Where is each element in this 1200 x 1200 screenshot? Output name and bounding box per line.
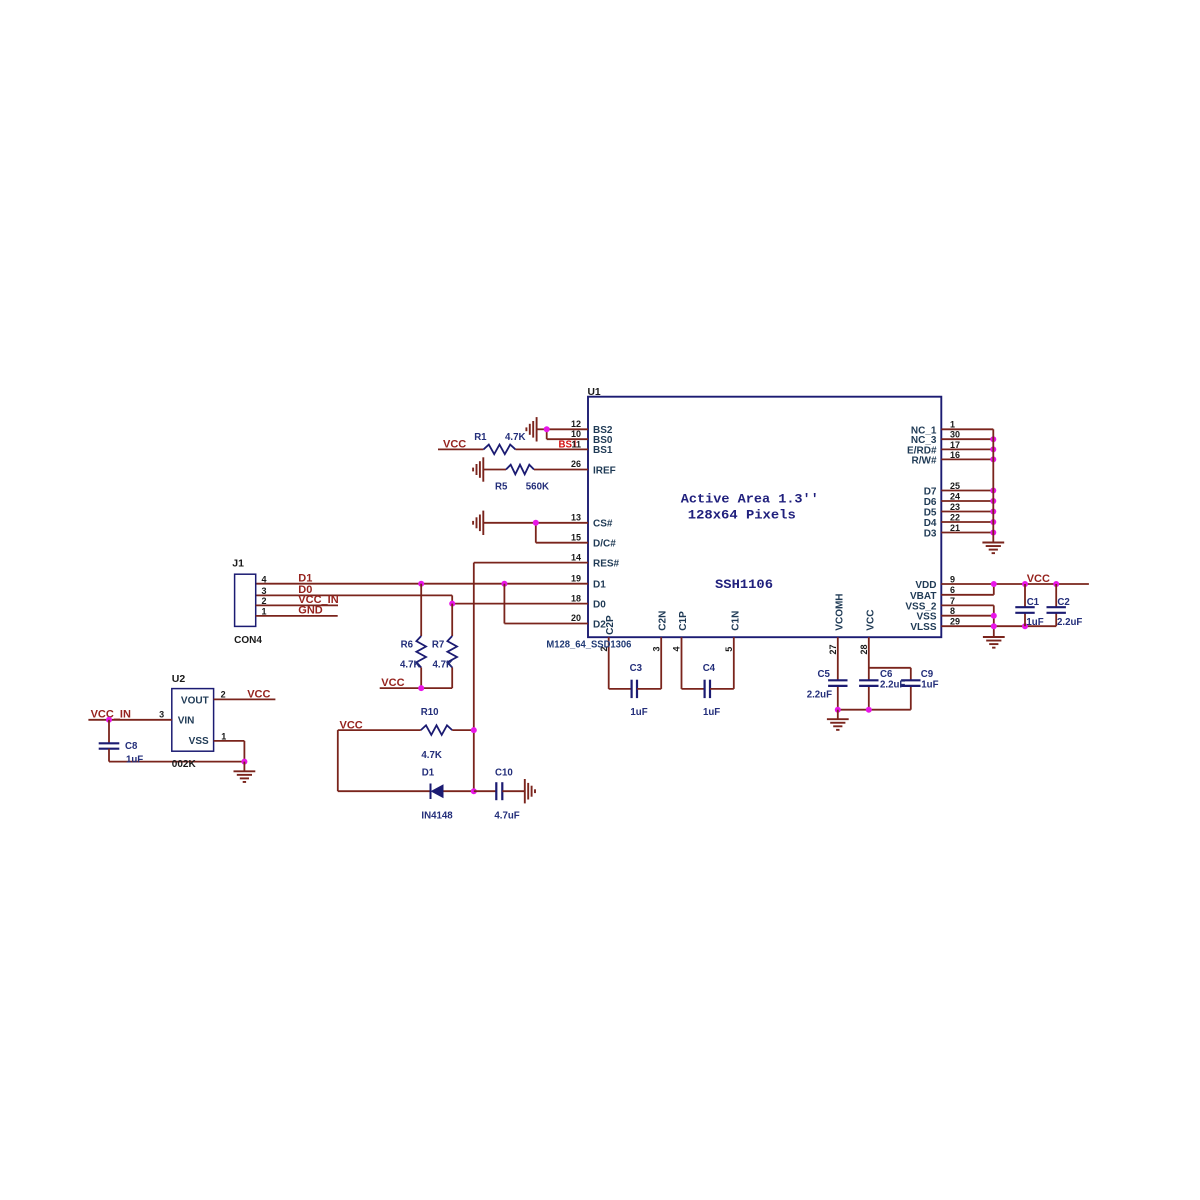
svg-text:1uF: 1uF (630, 707, 647, 718)
svg-text:1: 1 (221, 731, 226, 741)
svg-text:4: 4 (262, 574, 267, 584)
svg-text:R1: R1 (474, 432, 487, 443)
svg-text:29: 29 (950, 617, 960, 627)
svg-text:U2: U2 (172, 673, 186, 685)
svg-text:1uF: 1uF (921, 680, 938, 691)
svg-text:CS#: CS# (593, 519, 613, 530)
svg-text:1uF: 1uF (1026, 617, 1043, 628)
svg-text:4.7uF: 4.7uF (494, 811, 519, 822)
svg-text:VCC: VCC (443, 439, 466, 451)
svg-text:VBAT: VBAT (910, 591, 936, 602)
svg-text:30: 30 (950, 430, 960, 440)
svg-text:VCC: VCC (381, 677, 404, 689)
svg-text:D4: D4 (924, 518, 937, 529)
svg-text:8: 8 (950, 606, 955, 616)
svg-text:13: 13 (571, 513, 581, 523)
svg-text:15: 15 (571, 532, 581, 542)
svg-text:6: 6 (950, 585, 955, 595)
svg-text:C3: C3 (630, 663, 643, 674)
svg-text:VIN: VIN (178, 716, 195, 727)
svg-text:GND: GND (298, 605, 323, 617)
svg-text:4.7K: 4.7K (505, 432, 525, 443)
svg-text:3: 3 (159, 710, 164, 720)
svg-text:10: 10 (571, 429, 581, 439)
svg-text:J1: J1 (232, 558, 244, 570)
svg-text:C2N: C2N (658, 611, 669, 631)
svg-text:17: 17 (950, 440, 960, 450)
svg-text:24: 24 (950, 491, 960, 501)
svg-text:M128_64_SSD1306: M128_64_SSD1306 (546, 639, 631, 650)
svg-text:9: 9 (950, 574, 955, 584)
svg-text:1uF: 1uF (126, 755, 143, 766)
svg-text:5: 5 (724, 647, 734, 652)
svg-text:20: 20 (571, 613, 581, 623)
svg-text:C1N: C1N (730, 611, 741, 631)
svg-text:25: 25 (950, 481, 960, 491)
svg-text:IN4148: IN4148 (421, 811, 453, 822)
svg-text:BS1: BS1 (593, 445, 613, 456)
svg-text:18: 18 (571, 593, 581, 603)
svg-text:7: 7 (950, 596, 955, 606)
svg-text:4.7K: 4.7K (421, 750, 441, 761)
svg-text:26: 26 (571, 459, 581, 469)
svg-text:D/C#: D/C# (593, 539, 616, 550)
svg-text:4.7K: 4.7K (400, 659, 420, 670)
svg-text:1: 1 (950, 420, 955, 430)
svg-text:2.2uF: 2.2uF (1057, 617, 1082, 628)
svg-text:C1: C1 (1027, 597, 1040, 608)
svg-text:28: 28 (859, 644, 869, 654)
svg-text:C10: C10 (495, 768, 513, 779)
svg-text:VCC: VCC (1027, 573, 1050, 585)
svg-text:C6: C6 (880, 669, 893, 680)
svg-text:IREF: IREF (593, 465, 616, 476)
svg-text:12: 12 (571, 419, 581, 429)
svg-text:4: 4 (672, 646, 682, 651)
svg-text:4.7K: 4.7K (433, 659, 453, 670)
svg-text:3: 3 (651, 646, 661, 651)
svg-text:D0: D0 (593, 599, 606, 610)
svg-text:R10: R10 (421, 707, 439, 718)
svg-text:21: 21 (950, 523, 960, 533)
svg-text:R/W#: R/W# (912, 455, 937, 466)
svg-text:C1P: C1P (678, 611, 689, 631)
svg-text:VCOMH: VCOMH (834, 593, 845, 630)
svg-text:RES#: RES# (593, 558, 620, 569)
svg-text:002K: 002K (172, 759, 197, 770)
svg-text:23: 23 (950, 502, 960, 512)
svg-text:CON4: CON4 (234, 635, 262, 646)
svg-text:VCC: VCC (340, 719, 363, 731)
svg-text:D1: D1 (422, 768, 435, 779)
svg-text:16: 16 (950, 450, 960, 460)
svg-text:2.2uF: 2.2uF (807, 690, 832, 701)
svg-text:VLSS: VLSS (910, 622, 936, 633)
svg-text:D7: D7 (924, 487, 937, 498)
svg-text:VSS: VSS (916, 612, 936, 623)
svg-text:VCC: VCC (247, 689, 270, 701)
svg-text:R7: R7 (432, 640, 444, 651)
svg-text:D1: D1 (298, 573, 312, 585)
svg-text:C4: C4 (703, 663, 716, 674)
svg-text:27: 27 (828, 644, 838, 654)
svg-text:C2: C2 (1057, 597, 1069, 608)
svg-text:1uF: 1uF (703, 707, 720, 718)
svg-text:D1: D1 (593, 580, 606, 591)
svg-text:C8: C8 (125, 741, 138, 752)
svg-text:VDD: VDD (915, 580, 936, 591)
svg-text:128x64 Pixels: 128x64 Pixels (688, 509, 796, 523)
svg-text:C5: C5 (818, 669, 831, 680)
svg-text:VCC: VCC (865, 610, 876, 631)
svg-text:D3: D3 (924, 529, 937, 540)
svg-text:3: 3 (262, 586, 267, 596)
svg-text:D5: D5 (924, 508, 937, 519)
svg-text:2: 2 (221, 690, 226, 700)
svg-text:11: 11 (571, 440, 581, 450)
svg-text:22: 22 (950, 512, 960, 522)
svg-text:VOUT: VOUT (181, 695, 209, 706)
svg-text:C2P: C2P (605, 615, 616, 635)
svg-text:R6: R6 (401, 640, 414, 651)
svg-text:SSH1106: SSH1106 (715, 578, 773, 592)
svg-text:C9: C9 (921, 669, 934, 680)
svg-text:Active Area 1.3'': Active Area 1.3'' (681, 493, 819, 507)
svg-text:560K: 560K (526, 481, 549, 492)
svg-text:14: 14 (571, 552, 581, 562)
svg-text:R5: R5 (495, 481, 508, 492)
svg-text:U1: U1 (588, 387, 601, 398)
svg-text:VSS: VSS (189, 736, 209, 747)
svg-text:D6: D6 (924, 497, 937, 508)
svg-text:19: 19 (571, 573, 581, 583)
svg-text:2.2uF: 2.2uF (880, 680, 905, 691)
